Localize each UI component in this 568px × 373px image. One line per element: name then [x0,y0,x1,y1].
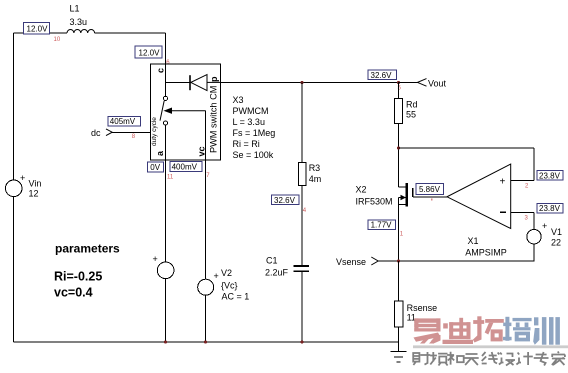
bias label 23.8V (+in) [537,171,563,181]
char 易 [414,318,441,343]
MOSFET X2 IRF530M [399,183,448,261]
wire: Vsense stub [378,260,399,262]
svg-text:12.0V: 12.0V [27,25,49,34]
wire: Rd to MOSFET drain [398,124,400,188]
wire: p output to Vout node [220,81,398,83]
bias label 400mV [170,162,202,172]
svg-text:Vin: Vin [29,179,42,189]
svg-text:+: + [20,173,25,183]
svg-text:405mV: 405mV [110,117,136,126]
svg-text:Vsense: Vsense [336,257,366,267]
source Va circle [157,262,174,279]
char 训 [533,317,560,345]
junction at R3 top [300,81,303,84]
wire: V2 to ground rail [205,295,207,342]
gate bar [412,188,414,197]
diode (internal, pointing left) [190,75,220,91]
svg-text:L1: L1 [70,4,80,14]
svg-text:X2: X2 [356,185,367,195]
svg-text:V2: V2 [221,268,232,278]
gate lead [413,196,447,198]
svg-text:C1: C1 [266,256,278,266]
junction V2/rail [204,340,207,343]
char 拓 [473,316,504,342]
专 [534,352,549,366]
svg-text:AC = 1: AC = 1 [222,292,250,302]
svg-text:R3: R3 [309,163,321,173]
char 迪 [443,318,474,344]
resistor Rsense [394,301,403,327]
junction Va/rail [164,340,167,343]
svg-text:vc=0.4: vc=0.4 [54,286,93,300]
svg-text:V1: V1 [551,227,562,237]
wire: vc terminal down to V2 [205,160,207,279]
wire: V1 bottom to Vsense node [399,244,535,261]
channel bar [406,183,408,207]
svg-text:23.8V: 23.8V [539,171,561,180]
inductor L1 [67,30,95,33]
capacitor C1 [294,266,309,271]
wire: -input to corner [511,212,534,214]
resistor Rd [394,99,402,124]
svg-text:2.2uF: 2.2uF [265,268,289,278]
svg-text:duty cycle: duty cycle [151,117,158,146]
bias label 32.6V (node 4) [272,195,300,205]
body arrow stub [399,197,407,199]
svg-text:AMPSIMP: AMPSIMP [465,248,507,258]
svg-text:400mV: 400mV [172,163,198,172]
switch bottom contact circle [163,121,167,125]
频 [430,352,448,366]
svg-text:3.3u: 3.3u [70,17,88,27]
计 [516,352,532,365]
svg-text:55: 55 [406,110,416,120]
svg-text:12.0V: 12.0V [139,49,161,58]
svg-text:10: 10 [54,37,61,43]
svg-text:22: 22 [551,238,561,248]
wire: Vin left vertical top [13,33,15,180]
control arrow into switch blade [164,108,206,114]
ground symbol [391,342,407,362]
switch top contact circle [163,96,167,100]
switch blade [160,101,164,121]
svg-text:Ri = Ri: Ri = Ri [233,139,260,149]
wire: R3 to C1 [301,186,303,266]
wire: diode branch horizontal [166,81,190,83]
source Vin circle [5,180,22,197]
svg-text:Fs = 1Meg: Fs = 1Meg [233,128,276,138]
svg-text:IRF530M: IRF530M [356,197,393,207]
wire: -input down to V1 [533,213,535,230]
wire: Va to ground rail [165,279,167,342]
watermark underline [413,345,568,348]
bias label 0V [148,162,164,172]
和 [447,352,464,365]
wire: a terminal down to Va source [165,160,167,262]
svg-text:11: 11 [167,175,174,181]
wire: feedback down to +input [533,148,535,181]
junction at feedback tap [397,146,400,149]
wire: switch to a terminal [165,125,167,160]
svg-text:L = 3.3u: L = 3.3u [233,117,265,127]
bias label 12.0V (input rail) [24,23,50,35]
bias label 12.0V (c terminal) [135,46,162,58]
svg-text:5.86V: 5.86V [419,185,441,194]
source stub [399,204,407,206]
svg-text:+: + [153,254,158,264]
wire: vc control vertical [204,111,206,160]
watermark logo 易迪拓培训 [413,316,568,365]
drain stub [399,186,407,188]
svg-text:Vout: Vout [428,79,447,89]
svg-text:Rd: Rd [406,100,418,110]
source V2 circle [198,279,214,295]
wire: Rd branch upper [398,82,400,98]
Vsense input arrow [371,257,378,265]
op-amp X1 AMPSIMP (pointing left) [447,164,511,228]
junction at Vout/Rd [397,81,400,84]
svg-text:32.6V: 32.6V [274,196,296,205]
junction at Vsense node [397,259,400,262]
wire: top horizontal from Vin to L1 [14,32,68,34]
svg-text:p: p [209,76,219,82]
bias label 5.86V [416,183,444,194]
svg-text:4m: 4m [309,174,322,184]
线 [482,352,500,364]
svg-text:0V: 0V [150,163,160,172]
source/body vertical [398,198,400,262]
dc input arrow [106,129,112,136]
svg-text:{Vc}: {Vc} [221,281,238,291]
svg-text:23.8V: 23.8V [539,204,561,213]
watermark slogan 射频和天线设计专家 [413,352,565,366]
svg-text:+: + [214,271,219,281]
svg-text:+: + [500,177,506,188]
wire: feedback top horizontal [399,147,535,149]
svg-text:Ri=-0.25: Ri=-0.25 [54,270,102,284]
svg-text:1.77V: 1.77V [371,221,393,230]
bias label 1.77V [368,220,396,230]
wire: +input to corner [511,180,534,182]
射 [413,352,430,365]
wire: dc input to box [112,131,151,133]
svg-text:dc: dc [91,128,101,138]
svg-text:12: 12 [29,189,39,199]
bias label 23.8V (-in) [537,203,563,213]
ground rail [14,341,399,343]
bias label 32.6V (Vout) [368,70,397,80]
wire: Vin bottom to rail [13,197,15,342]
svg-text:PWMCM: PWMCM [233,106,269,116]
wire: c internal down to switch [165,64,167,96]
svg-text:X1: X1 [468,236,479,246]
wire: C1 to rail [301,271,303,342]
PWM switch CM subcircuit X3 box [151,64,221,160]
source V1 circle [527,230,541,244]
设 [499,353,515,366]
svg-text:c: c [156,68,166,73]
wire: corner down to PWM box c terminal [165,33,167,64]
svg-text:+: + [542,221,547,231]
wire: R3 branch vertical upper [301,82,303,162]
junction C1/rail [300,340,303,343]
wire: L1 to corner [95,32,166,34]
char 培 [503,317,532,342]
wire: Vout stub [399,81,418,83]
wire: Rsense to rail [398,327,400,342]
wire: source node down to Rsense [398,261,400,301]
svg-text:PWM switch CM: PWM switch CM [209,86,219,153]
svg-text:X3: X3 [233,95,244,105]
Vout output arrow [418,79,427,87]
svg-text:32.6V: 32.6V [371,71,393,80]
svg-text:Rsense: Rsense [407,303,438,313]
X3 parameter text block [233,95,276,160]
svg-text:parameters: parameters [55,242,120,256]
svg-text:Se = 100k: Se = 100k [233,150,274,160]
bias label 405mV [108,116,140,126]
天 [464,354,478,365]
resistor R3 [298,163,306,186]
probe tick 5.86V [431,199,433,201]
家 [551,352,565,366]
